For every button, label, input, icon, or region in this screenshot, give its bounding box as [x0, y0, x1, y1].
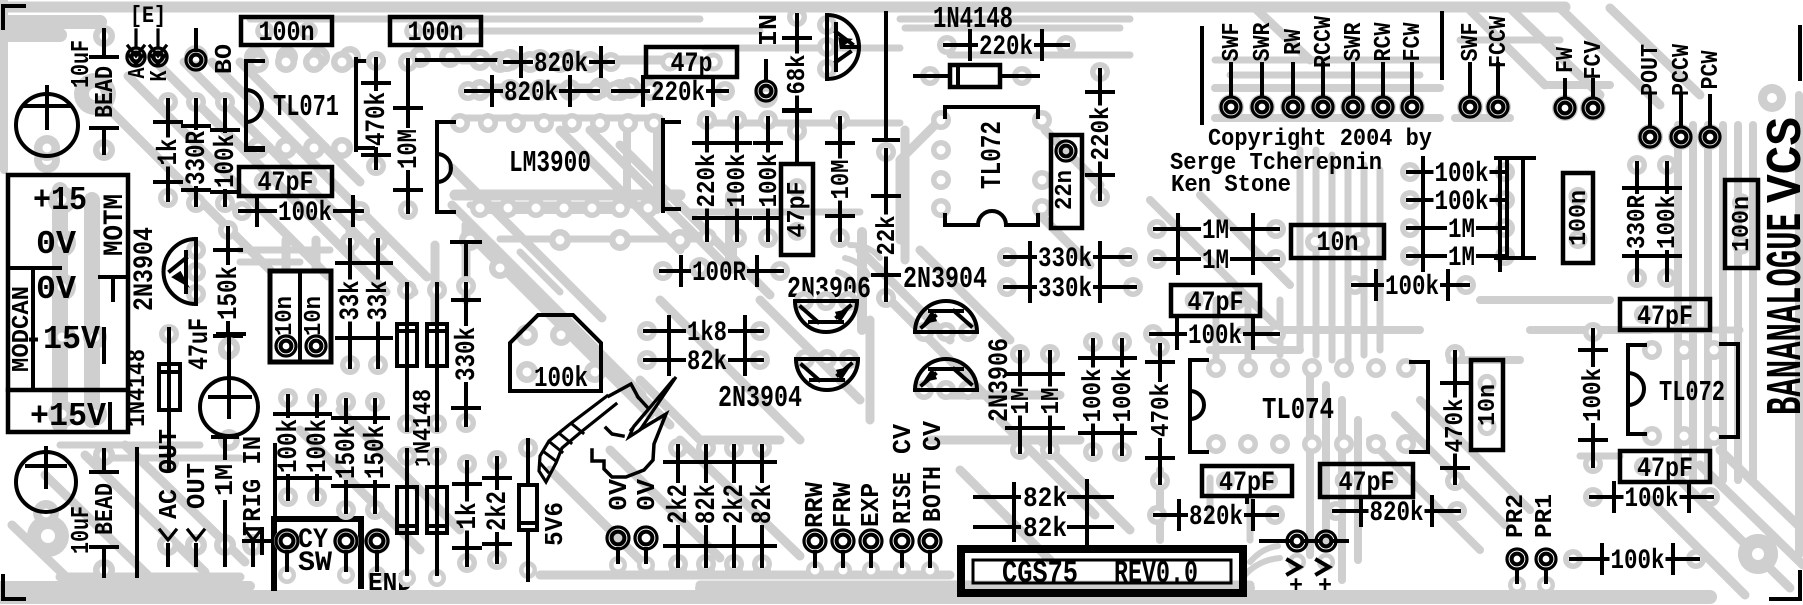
trace vert bundle mid-right [1300, 150, 1380, 360]
svg-text:100k: 100k [278, 198, 332, 229]
svg-text:PR1: PR1 [1532, 494, 1559, 538]
resistor 220k (vertical) [1087, 62, 1116, 207]
svg-text:RISE: RISE [889, 472, 918, 524]
svg-text:470k: 470k [1147, 383, 1176, 437]
svg-text:82k: 82k [692, 484, 723, 524]
svg-text:PCW: PCW [1698, 50, 1725, 89]
trace vert right bundle [1734, 125, 1742, 480]
trace mount small [1758, 84, 1786, 112]
transistor Q 2N3904 b [914, 301, 978, 342]
trace diagonal TL [128, 76, 328, 276]
resistor 1M mid-right row1 [1147, 215, 1286, 247]
trace left edge [0, 0, 8, 170]
pad SWR [1340, 22, 1368, 120]
svg-text:RRW: RRW [801, 481, 830, 528]
svg-text:FCCW: FCCW [1486, 16, 1513, 68]
svg-text:100k: 100k [1188, 321, 1242, 352]
svg-text:MODCAN: MODCAN [9, 286, 36, 372]
resistor 100k (right, y285) [1345, 271, 1476, 303]
capacitor C 47pF (top right) [1620, 299, 1710, 333]
trace pads lm row [459, 229, 481, 251]
svg-text:100k: 100k [1109, 369, 1138, 423]
trace h run c [460, 118, 900, 123]
svg-text:VCS: VCS [1759, 117, 1803, 203]
wire rails [1496, 158, 1534, 258]
capacitor C 100n box 1 [241, 17, 332, 49]
svg-text:47pF: 47pF [1637, 302, 1693, 333]
op-amp U1 TL071 outline [246, 59, 373, 150]
svg-text:100n: 100n [408, 18, 464, 49]
svg-text:10n: 10n [272, 296, 299, 336]
svg-text:1M: 1M [1037, 388, 1066, 415]
trace top band b [250, 16, 1130, 23]
svg-text:[E]: [E] [130, 3, 166, 29]
resistor 10M (vert mid) [827, 110, 856, 248]
resistor 100k (below 47pF mid) [1143, 320, 1286, 352]
svg-text:100k: 100k [1611, 546, 1665, 577]
resistor 470k (vertical, right of TL071) [362, 51, 393, 176]
svg-text:0V: 0V [605, 478, 634, 511]
trace h run g [1215, 60, 1440, 75]
resistor 1M mid-right row2 [1147, 245, 1286, 277]
pad OUT [183, 463, 212, 565]
diode D 1N4148 horizontal [915, 65, 1038, 87]
svg-text:100k: 100k [1435, 159, 1489, 190]
capacitor C 47pF box (left) [239, 167, 332, 199]
svg-text:SW: SW [298, 548, 333, 579]
capacitor C 100n box 2 [390, 17, 481, 49]
resistor 1k (bottom) [453, 454, 484, 573]
op-amp U TL074 outline [1190, 358, 1428, 454]
trace diagonal TL [100, 100, 270, 270]
pad POUT [1637, 44, 1665, 150]
wire (vertical left of SWF) [1200, 28, 1204, 123]
resistor 33k b [364, 232, 395, 375]
capacitor C 47pF (right) [1620, 451, 1710, 485]
divider line [1440, 13, 1444, 78]
svg-text:820k: 820k [504, 78, 558, 109]
svg-text:33k: 33k [364, 281, 395, 321]
svg-text:0V: 0V [633, 478, 662, 511]
corner mark bottom-left [3, 576, 24, 599]
trace mid diag low [300, 410, 800, 570]
resistor 330k row2 [997, 273, 1143, 305]
resistor 82k (bottom row) [692, 438, 723, 577]
diode marker K (cathode pad) [147, 30, 174, 82]
trace arcs bottom mid [1244, 546, 1280, 576]
trace diagonal LM [470, 235, 650, 415]
svg-text:TL074: TL074 [1262, 394, 1334, 428]
trace mount pad BR [1738, 534, 1778, 574]
trace h run i [60, 445, 240, 458]
svg-text:330k: 330k [1038, 274, 1092, 305]
svg-text:2k2: 2k2 [664, 484, 695, 524]
trace tl072l net [900, 120, 1100, 265]
resistor 82k (mid) [637, 346, 770, 378]
svg-text:220k: 220k [979, 32, 1033, 63]
svg-text:+: + [1318, 573, 1332, 599]
trace connector fill [60, 190, 92, 425]
pad 0V b [633, 478, 662, 574]
svg-text:TL072: TL072 [1659, 376, 1725, 409]
pad PR1 [1532, 494, 1559, 594]
trace diagonal LM [500, 255, 670, 425]
corner mark top-left [3, 6, 24, 28]
svg-text:Ken Stone: Ken Stone [1171, 172, 1291, 199]
svg-text:+15V: +15V [30, 397, 106, 435]
resistor 1M (vertical bottom-left) [211, 437, 240, 565]
trace h run e [838, 245, 880, 290]
wire (vertical 2) [273, 445, 277, 528]
svg-text:1M: 1M [1448, 243, 1475, 274]
svg-text:MOTM: MOTM [100, 194, 131, 256]
svg-text:FCW: FCW [1400, 22, 1427, 61]
capacitor C 10uF (top-left electrolytic) [16, 40, 96, 161]
resistor 1M r4 [1400, 242, 1515, 274]
svg-text:BOTH: BOTH [919, 466, 948, 522]
connector J1 power block outline [8, 175, 128, 432]
trace h run f [240, 250, 330, 262]
resistor 100k (vert right) [1653, 155, 1682, 288]
label CGS75 REV0.0 box [961, 549, 1243, 593]
svg-text:2N3904: 2N3904 [903, 263, 987, 297]
svg-text:100k: 100k [274, 419, 305, 473]
resistor 10M (vertical) [394, 52, 425, 220]
resistor 100k (vert) b [1109, 332, 1138, 462]
svg-text:REV0.0: REV0.0 [1114, 556, 1198, 592]
capacitor C 47pF box (mid) [1171, 285, 1260, 319]
trace lm bus2 [480, 206, 625, 214]
resistor 100k r2 [1400, 186, 1515, 218]
svg-text:220k: 220k [1087, 107, 1116, 161]
svg-text:2k2: 2k2 [720, 484, 751, 524]
svg-text:1k8: 1k8 [687, 318, 727, 349]
capacitor C 47uF electrolytic [185, 318, 258, 451]
svg-text:CV: CV [889, 424, 918, 454]
connector label -15V [24, 320, 104, 362]
trace lm pads62 [489, 51, 511, 73]
resistor 330k row1 [997, 243, 1138, 275]
svg-text:SWR: SWR [1341, 22, 1368, 61]
trace tl072r h [1580, 330, 1740, 456]
svg-text:82k: 82k [687, 347, 727, 378]
svg-text:0V: 0V [36, 225, 76, 263]
capacitor C 47pF box (bottom right-mid) [1320, 464, 1413, 499]
trace lm bus1 [455, 190, 680, 201]
svg-text:RCCW: RCCW [1311, 16, 1338, 68]
svg-text:10M: 10M [394, 129, 425, 169]
mount pad [1738, 534, 1778, 574]
svg-text:330k: 330k [1038, 244, 1092, 275]
svg-text:220k: 220k [693, 154, 722, 208]
trace bottom band left [0, 581, 250, 591]
pad 0V a [605, 478, 634, 574]
svg-text:1M: 1M [1448, 215, 1475, 246]
transistor Q top-right [817, 15, 859, 79]
trace diagonal TL [212, 62, 427, 277]
wire [417, 58, 507, 62]
resistor 100k (vert mid b) [755, 110, 784, 248]
resistor 2k2 (bottom row) [720, 438, 751, 577]
resistor 33k a [336, 232, 367, 375]
pad IN (top) [754, 14, 784, 108]
resistor 2k2 (bottom-left) [483, 450, 514, 570]
svg-text:BEAD: BEAD [91, 66, 120, 118]
trace h top mid [462, 60, 700, 88]
svg-text:5V6: 5V6 [541, 502, 570, 546]
svg-text:0V: 0V [36, 270, 76, 308]
trace diagonal TL [240, 62, 360, 182]
resistor 100k (vert) a [1079, 332, 1108, 462]
pad PR2 [1503, 494, 1530, 594]
resistor 82k (bottom row) [748, 438, 779, 577]
svg-text:BEAD: BEAD [91, 483, 120, 535]
capacitor C 22n [1051, 135, 1082, 228]
unicorn artwork [539, 377, 676, 482]
pad FCW [1399, 22, 1427, 120]
capacitor C 47pF (vertical box) [781, 110, 813, 255]
potentiometer VR 100k [510, 315, 606, 395]
capacitor C 10n box [1291, 225, 1384, 259]
trace tl074 net2 [1210, 300, 1280, 540]
op-amp U LM3900 outline [437, 113, 679, 218]
svg-text:1M: 1M [1202, 246, 1229, 277]
svg-text:100k: 100k [534, 362, 588, 395]
trace h run a [425, 28, 760, 35]
trace cgsbar [700, 583, 1250, 593]
trace diagonal LM [560, 130, 680, 250]
capacitor C 100n (vertical, x1578) [1563, 173, 1593, 263]
transistor Q 2N3904 (left) [130, 227, 206, 311]
resistor 220k (top middle) [605, 77, 735, 109]
svg-text:47pF: 47pF [258, 168, 314, 199]
wire (right of 82k) [1087, 481, 1112, 544]
svg-text:OUT: OUT [183, 463, 212, 509]
resistor 820k row2 [458, 77, 606, 109]
svg-text:POUT: POUT [1638, 44, 1665, 96]
svg-text:BANANALOGUE: BANANALOGUE [1759, 213, 1803, 415]
trace diag topright [1255, 8, 1700, 105]
inductor BEAD (bottom-left) [91, 444, 120, 581]
pad SWR [1249, 22, 1277, 120]
svg-text:SWR: SWR [1250, 22, 1277, 61]
trace diagonal LM [590, 130, 730, 270]
trace mid-vert cols [350, 225, 466, 320]
pad FCV [1580, 40, 1608, 121]
svg-text:47pF: 47pF [1637, 454, 1693, 485]
svg-text:SWF: SWF [1219, 23, 1246, 62]
svg-text:820k: 820k [534, 49, 588, 80]
resistor 330R (vert right) [1623, 155, 1652, 288]
svg-text:1k: 1k [453, 503, 484, 530]
resistor 1k8 [637, 317, 770, 349]
svg-text:1M: 1M [211, 464, 240, 496]
trace bl diag [12, 445, 245, 595]
pad RRW [801, 481, 830, 579]
mount pad top-left [74, 73, 116, 115]
svg-text:2N3904: 2N3904 [718, 382, 802, 416]
svg-text:1N4148: 1N4148 [123, 349, 152, 427]
svg-text:+15: +15 [33, 181, 87, 219]
svg-text:820k: 820k [1189, 502, 1243, 533]
svg-text:47pF: 47pF [783, 182, 812, 238]
inductor BEAD (top-left ferrite bead) [91, 25, 120, 161]
svg-text:1k: 1k [154, 139, 185, 166]
wire (vertical) [135, 449, 139, 576]
transistor Q 2N3904 c [795, 349, 859, 390]
svg-text:100k: 100k [1435, 187, 1489, 218]
trace h run d [470, 205, 860, 212]
trace bottom band2 [60, 575, 1250, 585]
svg-text:FRW: FRW [829, 481, 858, 528]
transistor Q 2N3906 a [794, 291, 858, 332]
resistor 150k (vertical, left) [214, 220, 245, 360]
pad PCCW [1668, 44, 1696, 150]
pad O [184, 30, 208, 70]
resistor 100k (below 47pF) [232, 197, 370, 229]
svg-text:100n: 100n [259, 18, 315, 49]
capacitor C 10uF (bottom-left electrolytic) [16, 448, 96, 554]
op-amp U TL072 outline (right) [1628, 340, 1738, 446]
pad RW [1280, 29, 1308, 120]
svg-text:100k: 100k [1625, 484, 1679, 515]
svg-text:470k: 470k [362, 92, 393, 146]
pad RCCW [1310, 16, 1338, 120]
svg-text:FCV: FCV [1581, 40, 1608, 79]
resistor 100k r1 [1400, 158, 1515, 190]
svg-text:AC OUT: AC OUT [155, 429, 184, 519]
diode D 1N4148 mid a [397, 280, 417, 434]
svg-text:82k: 82k [748, 484, 779, 524]
svg-text:Copyright 2004 by: Copyright 2004 by [1208, 126, 1432, 153]
capacitor C 100n (vertical, x1741) [1725, 180, 1758, 268]
trace diagonal LM [620, 145, 770, 295]
trace diag quad6 [960, 420, 1130, 560]
svg-text:LM3900: LM3900 [509, 147, 591, 181]
trace diagonal LM [452, 205, 642, 395]
resistor 1M (vert) a [1007, 344, 1036, 460]
svg-text:TL071: TL071 [273, 91, 339, 125]
op-amp U TL072 outline (left) [931, 107, 1052, 225]
svg-text:CGS75: CGS75 [1002, 556, 1078, 592]
svg-text:PR2: PR2 [1503, 494, 1530, 538]
trace right edge [1795, 95, 1803, 555]
resistor 22k (vertical) [873, 13, 902, 308]
pad AC OUT [155, 429, 184, 565]
trace top band [0, 2, 1565, 13]
pad FCCW [1485, 16, 1513, 120]
trace lm vert [627, 120, 657, 210]
svg-text:TL072: TL072 [976, 121, 1009, 189]
resistor 100k (below 47pF right) [1583, 483, 1720, 515]
trace h run b [705, 48, 1130, 55]
svg-text:10M: 10M [827, 160, 856, 200]
capacitor C 10n (vertical right) [1471, 360, 1503, 450]
resistor 100k pair b [303, 388, 334, 507]
trace diag serge [1150, 195, 1290, 330]
pad EXP [857, 483, 886, 579]
trace diagonal TL [184, 62, 414, 292]
svg-text:330R: 330R [1623, 195, 1652, 249]
pad SWF [1218, 23, 1246, 121]
svg-text:820k: 820k [1370, 498, 1424, 529]
resistor 1M r3 [1400, 214, 1515, 246]
svg-text:47pF: 47pF [1188, 288, 1244, 319]
resistor 470k (vert) [1147, 337, 1176, 491]
svg-text:PCCW: PCCW [1669, 44, 1696, 96]
svg-text:BO: BO [212, 44, 239, 74]
svg-text:100k: 100k [1385, 272, 1439, 303]
svg-text:K: K [147, 70, 174, 81]
trace vert right bundle [1749, 125, 1757, 480]
svg-text:1M: 1M [1007, 388, 1036, 415]
pad RCW [1370, 22, 1398, 120]
svg-text:EXP: EXP [857, 483, 886, 527]
resistor 820k (bottom mid) [1147, 496, 1285, 533]
svg-text:100R: 100R [692, 258, 747, 289]
svg-text:150k: 150k [361, 425, 392, 479]
diode D 1N4148 mid b [427, 280, 447, 434]
resistor 2k2 (bottom row) [664, 438, 695, 577]
svg-text:1M: 1M [1202, 216, 1229, 247]
svg-text:47uF: 47uF [185, 318, 216, 370]
trace bottom band [0, 590, 1710, 604]
resistor 220k (vert mid) [693, 110, 722, 248]
resistor 100k pair a [274, 388, 305, 507]
diode D 1N4148 low b [427, 446, 447, 587]
svg-text:100k: 100k [1653, 195, 1682, 249]
trace 10n link [286, 240, 316, 268]
mount pad mid-left [34, 147, 60, 173]
pad RISE CV [889, 424, 918, 579]
mount pad bottom-left [27, 515, 69, 557]
IC U1 TL071 pin pads [247, 51, 269, 73]
svg-text:330R: 330R [182, 130, 213, 185]
svg-text:RW: RW [1281, 29, 1308, 55]
resistor 100k (bottom right) [1563, 545, 1706, 577]
trace lm bus3 [500, 239, 700, 292]
resistor 150k pair a [332, 392, 363, 520]
trace hseg fw row [1455, 85, 1610, 118]
svg-text:150k: 150k [214, 266, 245, 320]
resistor 330R (vertical col) [182, 92, 213, 213]
svg-text:10n: 10n [1475, 384, 1502, 426]
pad + a [1261, 531, 1307, 599]
trace vert mid-right [1310, 365, 1358, 580]
capacitor C 47pF box (bottom mid) [1202, 466, 1292, 499]
transistor Q 2N3906 d [914, 359, 978, 400]
board edge mark right [1798, 27, 1802, 79]
trace pads row y57 [244, 46, 266, 68]
svg-text:220k: 220k [651, 78, 705, 109]
capacitor C 10n dual box [270, 271, 331, 362]
svg-text:CV: CV [919, 421, 948, 451]
resistor 220k (upper right) [937, 31, 1076, 63]
svg-text:RCW: RCW [1371, 22, 1398, 61]
svg-text:100k: 100k [303, 419, 334, 473]
resistor 68k (vertical top) [783, 7, 812, 141]
trace diag right-bottom [1650, 450, 1803, 595]
svg-text:100k: 100k [1579, 368, 1608, 422]
svg-text:FW: FW [1553, 47, 1580, 73]
trace net transistors [860, 250, 1080, 440]
trace vert right bundle [1674, 125, 1682, 480]
pad FW [1552, 47, 1580, 121]
trace vert 100R [725, 196, 737, 268]
trace rmid h [1450, 300, 1650, 360]
svg-text:10n: 10n [301, 296, 328, 336]
trace h run h [905, 28, 1560, 40]
